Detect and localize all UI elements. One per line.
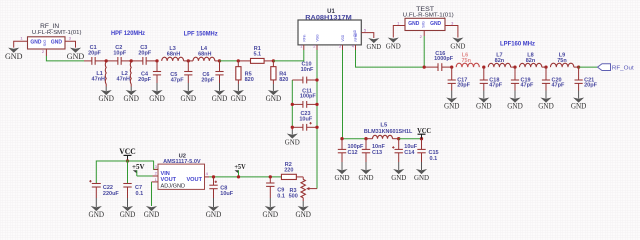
svg-text:220uF: 220uF <box>103 191 120 197</box>
ground (C4) <box>156 83 158 91</box>
wire VCC rail to U2 <box>96 161 158 183</box>
svg-text:220: 220 <box>284 168 293 174</box>
node junction C11 right <box>315 103 318 106</box>
ground (C21) <box>578 91 580 99</box>
svg-text:GND: GND <box>335 173 350 182</box>
svg-text:GND: GND <box>444 102 460 111</box>
wire <box>220 60 239 62</box>
svg-text:1: 1 <box>155 177 158 182</box>
node junction C11 left <box>291 103 294 106</box>
capacitor C1 symbol <box>91 57 93 65</box>
capacitor C1 <box>84 60 92 62</box>
svg-text:68nH: 68nH <box>198 52 211 58</box>
node junction C23 right <box>315 126 318 129</box>
wire <box>399 138 422 140</box>
pin 1 wire <box>14 41 28 47</box>
node junction L1 <box>105 59 108 62</box>
svg-text:2: 2 <box>155 171 158 176</box>
capacitor C9 <box>269 177 271 183</box>
svg-text:820: 820 <box>279 77 288 83</box>
capacitor C14 (10uF polarized) <box>398 139 400 150</box>
inductor L9 coil <box>551 63 574 67</box>
svg-text:GND: GND <box>538 102 554 111</box>
ground (C13) <box>365 162 367 170</box>
svg-text:100pF: 100pF <box>300 94 317 100</box>
svg-text:20pF: 20pF <box>138 77 151 83</box>
svg-text:820: 820 <box>245 77 254 83</box>
inductor L4 coil <box>193 57 215 61</box>
potentiometer R3 <box>302 177 304 180</box>
svg-text:GND: GND <box>144 210 160 219</box>
svg-text:75n: 75n <box>557 58 567 64</box>
svg-text:RF_Out: RF_Out <box>612 65 634 71</box>
svg-text:+5V: +5V <box>132 163 145 171</box>
connector J RF_IN U.FL-R-SMT-1(01) <box>28 37 66 49</box>
svg-text:500: 500 <box>289 194 298 200</box>
svg-text:C12: C12 <box>348 150 358 156</box>
svg-text:10uF: 10uF <box>299 117 312 123</box>
svg-text:GND: GND <box>450 42 465 51</box>
module U1 RA08H1317M <box>298 20 361 45</box>
wire to RF_Out <box>579 66 598 68</box>
node junction C23 left <box>291 126 294 129</box>
svg-text:GND: GND <box>149 94 165 103</box>
svg-text:VOUT: VOUT <box>186 177 202 183</box>
capacitor C2 symbol <box>117 57 119 65</box>
TEST pin 2 wire <box>423 31 425 37</box>
resistor R1 body <box>251 58 265 63</box>
svg-text:20pF: 20pF <box>584 83 597 89</box>
svg-text:RA08H1317M: RA08H1317M <box>305 15 352 21</box>
capacitor C21 symbol <box>578 67 580 80</box>
svg-text:LPF 150MHz: LPF 150MHz <box>184 30 218 37</box>
svg-text:82n: 82n <box>495 58 505 64</box>
svg-text:VCC: VCC <box>417 126 431 135</box>
svg-text:3: 3 <box>155 164 158 169</box>
capacitor C13 <box>365 139 367 150</box>
TEST pin 1 wire <box>393 26 405 38</box>
svg-text:GND: GND <box>5 51 23 61</box>
svg-text:VCC: VCC <box>119 147 136 156</box>
node junction C19 <box>513 65 516 68</box>
net +5V left <box>133 170 137 173</box>
svg-text:U1: U1 <box>327 9 335 15</box>
svg-text:U.FL-R-SMT-1(01): U.FL-R-SMT-1(01) <box>32 30 82 36</box>
svg-text:VIN: VIN <box>161 171 170 177</box>
power VCC symbol (left) <box>124 154 132 156</box>
svg-text:AMS1117-5.0V: AMS1117-5.0V <box>163 159 201 165</box>
svg-text:20pF: 20pF <box>457 83 470 89</box>
wire VGG rail <box>316 50 318 189</box>
svg-text:3: 3 <box>339 44 341 48</box>
svg-text:47nH: 47nH <box>117 76 130 82</box>
svg-text:L5: L5 <box>380 123 388 129</box>
ground (TEST pin3) <box>452 38 463 43</box>
svg-text:GND: GND <box>30 40 41 46</box>
node junction C5 <box>187 59 190 62</box>
svg-text:GND: GND <box>212 94 228 103</box>
svg-text:GND: GND <box>67 51 85 61</box>
wire VDD rail <box>342 138 366 140</box>
node junction R5 <box>237 59 240 62</box>
node junction TEST tap <box>423 65 426 68</box>
svg-text:1000pF: 1000pF <box>434 56 454 62</box>
U2 pin 4 stub <box>205 176 210 178</box>
node junction L2 <box>130 59 133 62</box>
svg-text:68nH: 68nH <box>167 52 180 58</box>
svg-text:20pF: 20pF <box>201 77 214 83</box>
svg-text:1: 1 <box>397 20 400 25</box>
ground (RF_IN pin3) <box>70 48 81 53</box>
svg-text:10pF: 10pF <box>113 51 126 57</box>
svg-text:+5V: +5V <box>234 163 245 171</box>
ground (C10/C11/C23) <box>291 130 293 135</box>
svg-text:GND: GND <box>263 210 279 219</box>
svg-text:GND: GND <box>231 94 247 103</box>
svg-text:GND: GND <box>206 210 222 219</box>
wire <box>106 60 117 62</box>
node junction +5V flag <box>237 175 240 178</box>
node junction C9 <box>269 175 272 178</box>
inductor L5 coil <box>373 135 393 138</box>
svg-text:75n: 75n <box>461 58 471 64</box>
ground (C15) <box>421 162 423 170</box>
svg-text:GND: GND <box>414 173 429 182</box>
svg-text:VGG: VGG <box>316 34 320 42</box>
svg-text:GND: GND <box>51 40 62 46</box>
node junction VGG-C10 <box>315 78 318 81</box>
ground (C14) <box>398 162 400 170</box>
ground (C8) <box>213 198 215 207</box>
svg-text:0.1: 0.1 <box>136 191 144 197</box>
ground (C6) <box>219 83 221 91</box>
U1 pin 3 VDD <box>342 45 344 50</box>
svg-text:4: 4 <box>352 44 354 48</box>
svg-text:4: 4 <box>206 171 209 176</box>
capacitor C3 symbol <box>142 57 144 65</box>
node junction VCC tap <box>420 137 423 140</box>
svg-text:82n: 82n <box>526 58 536 64</box>
svg-text:47pF: 47pF <box>552 83 565 89</box>
svg-text:1: 1 <box>20 36 23 41</box>
inductor L1 coil <box>104 62 107 84</box>
svg-text:GND: GND <box>359 173 374 182</box>
node junction C18 <box>482 65 485 68</box>
wire +5V to U2 VOUT <box>137 175 153 177</box>
capacitor C19 symbol <box>514 67 516 80</box>
node junction C8 <box>212 175 215 178</box>
pin 3 wire <box>65 41 76 47</box>
capacitor C22 (220uF polarized) <box>95 182 97 185</box>
capacitor C17 symbol <box>451 67 453 80</box>
svg-text:GND: GND <box>89 210 105 219</box>
svg-text:GND: GND <box>430 21 441 27</box>
svg-text:GND: GND <box>353 29 357 37</box>
svg-text:10nF: 10nF <box>301 67 314 73</box>
svg-text:U.FL-R-SMT-1(01): U.FL-R-SMT-1(01) <box>403 12 454 18</box>
wire RF output net <box>356 50 425 67</box>
ground (RF_IN pin1) <box>8 48 19 53</box>
node junction C6 <box>218 59 221 62</box>
resistor R2 body <box>281 174 296 179</box>
capacitor C7 <box>127 161 129 184</box>
svg-text:47pF: 47pF <box>171 77 184 83</box>
svg-text:ADJ/GND: ADJ/GND <box>161 183 186 189</box>
inductor L2 coil <box>129 62 132 84</box>
capacitor C10 <box>292 79 303 81</box>
node junction C14 <box>397 137 400 140</box>
svg-text:GND: GND <box>476 102 492 111</box>
svg-text:LPF160 MHz: LPF160 MHz <box>500 40 535 47</box>
capacitor C4 symbol <box>156 61 158 72</box>
wire to U1 pin 1 <box>273 50 303 61</box>
node junction C13 <box>364 137 367 140</box>
svg-text:3: 3 <box>69 36 72 41</box>
node junction C20 <box>544 65 547 68</box>
connector TEST U.FL-R-SMT-1(01) <box>405 18 445 30</box>
ground (C5) <box>187 83 189 91</box>
node junction C4 <box>155 59 158 62</box>
svg-text:GND: GND <box>123 94 139 103</box>
node junction R4 <box>272 59 275 62</box>
capacitor C5 symbol <box>187 61 189 72</box>
node junction C17 <box>450 65 453 68</box>
node junction C12 corner <box>340 137 343 140</box>
wire <box>131 60 142 62</box>
ground (C12) <box>341 162 343 170</box>
wire ground rail left of C10 <box>291 80 293 127</box>
capacitor C18 symbol <box>483 67 485 80</box>
capacitor C23 (10uF polarized) <box>292 126 303 128</box>
ground (C20) <box>545 91 547 99</box>
svg-text:2: 2 <box>420 34 423 39</box>
U2 pin 1 stub <box>152 181 159 183</box>
svg-text:GND: GND <box>266 94 282 103</box>
R3 wiper arrow <box>308 188 317 190</box>
svg-text:GND: GND <box>408 21 419 27</box>
ground (C17) <box>451 91 453 99</box>
wire VDD net <box>342 50 344 139</box>
inductor L7 coil <box>488 63 510 67</box>
ground (TEST pin1) <box>388 38 399 43</box>
svg-text:GND: GND <box>507 102 523 111</box>
svg-text:C14: C14 <box>404 150 415 156</box>
U2 pin 3 stub <box>154 168 158 170</box>
capacitor C15 <box>421 139 423 150</box>
wire <box>291 127 293 130</box>
svg-text:GND: GND <box>367 42 382 51</box>
ground (C9) <box>269 198 271 207</box>
svg-text:VOUT: VOUT <box>161 177 177 183</box>
resistor R1 <box>238 60 251 62</box>
capacitor C12 <box>341 139 343 150</box>
wire ADJ to ground <box>151 182 153 206</box>
svg-text:GND: GND <box>295 210 311 219</box>
svg-text:20pF: 20pF <box>138 51 151 57</box>
resistor R5 <box>237 61 239 67</box>
svg-text:47pF: 47pF <box>521 83 534 89</box>
svg-text:GND: GND <box>181 94 197 103</box>
port RF_Out <box>598 64 611 71</box>
capacitor C16 <box>424 66 438 68</box>
svg-text:GND: GND <box>391 173 406 182</box>
svg-text:2: 2 <box>313 44 315 48</box>
svg-text:SIG: SIG <box>42 39 47 46</box>
ground (C19) <box>514 91 516 99</box>
svg-text:10uF: 10uF <box>220 191 233 197</box>
svg-text:GND: GND <box>571 102 587 111</box>
inductor L3 coil <box>162 57 184 61</box>
U1 pin 2 VGG <box>316 45 318 50</box>
ground (U2 ADJ) <box>146 206 157 211</box>
pin 2 wire <box>45 49 47 56</box>
svg-text:0.1: 0.1 <box>430 156 438 162</box>
svg-text:1: 1 <box>300 44 302 48</box>
svg-text:BLM31KN601SH1L: BLM31KN601SH1L <box>364 129 413 135</box>
ground (C22) <box>95 198 97 207</box>
inductor L8 coil <box>520 63 542 67</box>
ground (C18) <box>483 91 485 99</box>
wire U1 case ground <box>361 33 374 38</box>
ground (L2) <box>130 87 132 92</box>
resistor R5 body <box>236 67 241 80</box>
svg-text:5.1: 5.1 <box>253 52 261 58</box>
capacitor C6 symbol <box>219 61 221 72</box>
svg-text:GND: GND <box>386 42 401 51</box>
svg-text:C13: C13 <box>372 150 382 156</box>
svg-text:GND: GND <box>120 210 136 219</box>
svg-text:GND: GND <box>98 94 114 103</box>
capacitor C11 <box>292 103 303 105</box>
svg-text:3: 3 <box>451 20 454 25</box>
TEST pin 3 wire <box>445 26 458 38</box>
svg-text:SIG: SIG <box>421 21 426 28</box>
node junction VCC-C7 <box>126 159 129 162</box>
ground (L1) <box>105 87 107 92</box>
wire RF input net <box>46 56 84 61</box>
resistor R4 <box>272 61 274 67</box>
ground (R5) <box>237 84 239 91</box>
svg-text:VDD: VDD <box>341 34 345 41</box>
node junction C21 <box>577 65 580 68</box>
U1 pin 1 <box>303 45 305 50</box>
wire +5V output rail <box>209 176 281 178</box>
capacitor C8 (10uF polarized) <box>213 177 215 185</box>
ground (C7) <box>127 198 129 207</box>
regulator U2 AMS1117-5.0V <box>158 164 205 189</box>
capacitor C20 symbol <box>545 67 547 80</box>
ground (U1 case) <box>368 38 379 43</box>
inductor L6 coil <box>456 63 479 67</box>
resistor R4 body <box>271 67 276 80</box>
svg-text:GND: GND <box>285 138 300 147</box>
ground (R4) <box>272 84 274 91</box>
svg-text:47pF: 47pF <box>489 83 502 89</box>
svg-text:2: 2 <box>42 49 45 54</box>
svg-text:0.1: 0.1 <box>277 193 285 199</box>
svg-text:20pF: 20pF <box>88 51 101 57</box>
net +5V right <box>235 170 239 173</box>
svg-text:47nH: 47nH <box>92 76 105 82</box>
ground (R3) <box>302 201 304 207</box>
power VCC (right) <box>418 133 426 135</box>
svg-text:HPF 120MHz: HPF 120MHz <box>111 30 145 37</box>
svg-text:RFin: RFin <box>303 35 307 42</box>
U1 pin 4 RF out <box>355 45 357 50</box>
svg-text:5: 5 <box>364 29 366 33</box>
